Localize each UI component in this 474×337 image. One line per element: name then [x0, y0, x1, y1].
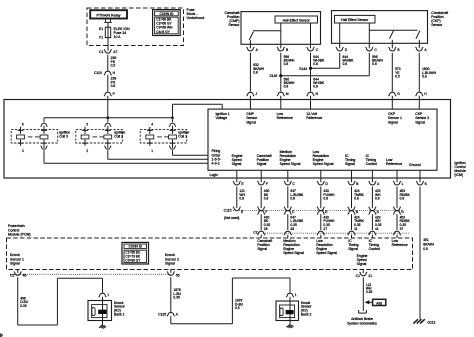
- svg-text:6: 6: [22, 123, 24, 127]
- svg-text:Control: Control: [454, 165, 466, 169]
- svg-text:Crankshaft: Crankshaft: [431, 11, 448, 15]
- svg-text:CKP: CKP: [415, 112, 423, 116]
- wire 239 PK 0.5: [108, 55, 117, 71]
- svg-text:Block -: Block -: [187, 12, 199, 16]
- svg-text:A7: A7: [113, 50, 117, 54]
- svg-text:12-Volt: 12-Volt: [306, 112, 317, 116]
- svg-text:Control: Control: [369, 247, 381, 251]
- knock sensor KS bank 2: [276, 301, 299, 321]
- svg-text:0.8: 0.8: [372, 62, 377, 66]
- relay K1 PTRAIN Relay box: [90, 10, 127, 18]
- PCM C2 terminal (B column): [348, 231, 356, 238]
- svg-text:G: G: [397, 92, 400, 96]
- svg-text:Signal: Signal: [415, 120, 425, 124]
- splice S145: [269, 74, 369, 78]
- wire 647-L-BU/BK from ICM C: [288, 187, 304, 209]
- svg-text:37: 37: [400, 227, 404, 231]
- svg-text:1-6-5-: 1-6-5-: [212, 157, 222, 161]
- ICM bottom terminal D: [317, 170, 328, 186]
- coil1 control line: [173, 150, 209, 155]
- svg-text:46: 46: [23, 274, 27, 278]
- svg-text:27: 27: [323, 227, 327, 231]
- wire 496 D-BU 0.35 (KS1): [18, 277, 29, 325]
- svg-text:Ignition: Ignition: [454, 161, 465, 165]
- svg-text:IC: IC: [345, 154, 349, 158]
- svg-text:Low: Low: [313, 150, 320, 154]
- svg-text:5: 5: [86, 123, 88, 127]
- inline connector C115 row (dotted): [233, 209, 403, 211]
- wire coil1 top to logic: [173, 104, 223, 122]
- svg-text:E1: E1: [99, 27, 103, 31]
- svg-text:Antilock Brake: Antilock Brake: [351, 317, 373, 321]
- wire 451 BK/WH from ICM K to G112: [420, 187, 435, 320]
- svg-text:4-3-2: 4-3-2: [212, 161, 220, 165]
- svg-text:Ignition: Ignition: [114, 131, 125, 135]
- svg-text:Sensor 2: Sensor 2: [415, 116, 429, 120]
- label CKP Sensor 2 Signal: [415, 112, 429, 124]
- svg-text:C110: C110: [94, 71, 102, 75]
- connector C110 pin H: [94, 71, 116, 75]
- svg-text:Sensor: Sensor: [301, 305, 313, 309]
- svg-text:Bank 1: Bank 1: [114, 313, 125, 317]
- svg-text:Signal: Signal: [345, 162, 355, 166]
- svg-text:Resolution: Resolution: [280, 154, 297, 158]
- svg-text:21: 21: [368, 274, 372, 278]
- CKP switch bus: [369, 29, 417, 31]
- label Crankshaft Position (CKP) Sensor: [431, 11, 448, 27]
- connector C115 pin C: [284, 207, 295, 215]
- connector C115 pin A: [369, 207, 380, 215]
- PCM C2 terminal (A column): [369, 231, 377, 238]
- svg-text:Low: Low: [392, 239, 399, 243]
- ground (KS2): [287, 324, 294, 328]
- wire fuse to C1: [107, 38, 109, 51]
- label Knock Sensor (KS) Bank 1: [114, 301, 126, 317]
- label Low Reference (PCM): [392, 239, 408, 247]
- svg-text:Control: Control: [8, 228, 20, 232]
- PCM C2 terminal (L column): [393, 231, 401, 238]
- PCM C2 terminal pin 46: [10, 270, 26, 278]
- relay contact prongs: [104, 19, 112, 22]
- svg-text:Knock: Knock: [10, 253, 20, 257]
- svg-text:Control: Control: [366, 162, 378, 166]
- wire KS1 to ground: [102, 321, 104, 325]
- svg-text:S145: S145: [269, 74, 277, 78]
- svg-text:56: 56: [176, 274, 180, 278]
- label C115 / Not used: [224, 209, 240, 220]
- svg-text:G: G: [401, 210, 404, 214]
- label Camshaft Position Signal (ICM): [257, 154, 272, 166]
- svg-text:0.8: 0.8: [375, 196, 380, 200]
- wire KS2 to ground: [289, 321, 291, 325]
- svg-text:Camshaft: Camshaft: [257, 154, 272, 158]
- svg-text:Low: Low: [316, 239, 323, 243]
- svg-text:CONN ID: CONN ID: [128, 245, 142, 249]
- svg-text:Timing: Timing: [348, 243, 358, 247]
- svg-text:IC: IC: [366, 154, 370, 158]
- svg-text:0.8: 0.8: [343, 62, 348, 66]
- svg-text:CONN ID: CONN ID: [159, 12, 174, 16]
- svg-text:Engine: Engine: [357, 254, 368, 258]
- svg-text:G112: G112: [427, 320, 435, 324]
- svg-text:1: 1: [295, 293, 297, 297]
- PCM C2 dotted line (bottom): [10, 273, 171, 275]
- wire 424-TN/BK from ICM B: [352, 187, 365, 209]
- svg-text:Signal: Signal: [232, 162, 242, 166]
- svg-text:Timing: Timing: [345, 158, 355, 162]
- CMP terminal B: [277, 47, 289, 52]
- connector ID table (PCM): [122, 242, 149, 264]
- svg-text:Low: Low: [386, 158, 393, 162]
- svg-text:0.35: 0.35: [173, 296, 180, 300]
- svg-text:Camshaft: Camshaft: [257, 239, 272, 243]
- label Knock Sensor 2 Signal: [165, 253, 179, 265]
- PCM C1 terminal pin 21: [356, 270, 373, 279]
- ground G112: [413, 319, 435, 324]
- svg-text:Logic: Logic: [210, 173, 219, 177]
- splice S144: [299, 67, 340, 71]
- svg-text:Fuse: Fuse: [187, 8, 195, 12]
- ignition voltage bus: [44, 116, 174, 119]
- label Ignition 1 Voltage: [216, 112, 230, 120]
- wire 430-BK from ICM F: [261, 187, 269, 209]
- label Logic: [210, 173, 219, 177]
- svg-text:0.8: 0.8: [290, 196, 295, 200]
- svg-text:11: 11: [354, 227, 358, 231]
- ground (KS1): [99, 325, 106, 329]
- label CMP Sensor Signal: [246, 112, 258, 124]
- svg-text:Signal: Signal: [246, 120, 256, 124]
- svg-text:28: 28: [290, 227, 294, 231]
- off-page bracket (ABS): [359, 310, 367, 313]
- svg-text:Sensor: Sensor: [246, 116, 258, 120]
- svg-text:Engine: Engine: [232, 154, 243, 158]
- label E1: [99, 27, 103, 31]
- svg-text:C2=73 BK: C2=73 BK: [125, 255, 140, 259]
- svg-text:ELEK IGN: ELEK IGN: [114, 27, 131, 31]
- wire coil3 top: [43, 118, 45, 122]
- svg-text:CMP: CMP: [246, 112, 254, 116]
- ICM bottom terminal C: [284, 170, 295, 186]
- off-page arrow A93: [365, 299, 386, 305]
- label Powertrain Control Module (PCM): [8, 224, 31, 236]
- label CKP Sensor 1 Signal: [388, 112, 402, 124]
- svg-text:Sensor: Sensor: [431, 23, 443, 27]
- svg-text:0.8: 0.8: [423, 247, 428, 251]
- wire 453-RD/BK from ICM L: [397, 187, 410, 209]
- wire 596 BK/WH lower (to M): [281, 76, 295, 92]
- wire 423-WH below C115 (A): [372, 214, 381, 231]
- svg-text:Resolution: Resolution: [283, 243, 300, 247]
- svg-text:Resolution: Resolution: [316, 243, 333, 247]
- svg-text:0.8: 0.8: [313, 85, 318, 89]
- wire KS2 route: [171, 278, 290, 324]
- svg-text:Signal: Signal: [257, 247, 267, 251]
- svg-text:Signal: Signal: [357, 262, 367, 266]
- wire 423-WH from ICM A: [372, 187, 381, 209]
- CKP terminal C: [366, 47, 378, 52]
- CKP switch blade 2: [416, 31, 420, 49]
- svg-text:Voltage: Voltage: [216, 116, 228, 120]
- wire 121 WH 0.35 (engine speed out): [363, 277, 372, 311]
- svg-text:Hall Effect Sensor: Hall Effect Sensor: [283, 18, 311, 22]
- svg-text:C1=68 BK: C1=68 BK: [156, 18, 172, 22]
- svg-text:0.35: 0.35: [20, 304, 27, 308]
- svg-text:0.35: 0.35: [366, 290, 373, 294]
- wire P into ICM: [107, 96, 109, 118]
- svg-text:0.8: 0.8: [253, 70, 258, 74]
- svg-text:Knock: Knock: [114, 301, 124, 305]
- svg-text:0.35: 0.35: [375, 223, 382, 227]
- svg-text:Order: Order: [212, 153, 222, 157]
- svg-text:C2: C2: [10, 274, 14, 278]
- wire 1876 L-BU 0.35 (KS2): [171, 277, 182, 312]
- svg-text:Coil 2: Coil 2: [114, 135, 123, 139]
- label Antilock Brake System Schematics: [347, 317, 377, 325]
- svg-text:0.8: 0.8: [400, 196, 405, 200]
- label IC Timing Signal (PCM): [348, 239, 358, 251]
- ignition coil 1: [140, 123, 189, 153]
- svg-text:0.8: 0.8: [422, 74, 427, 78]
- svg-text:Medium: Medium: [283, 239, 296, 243]
- svg-text:J: J: [255, 92, 257, 96]
- svg-text:System Schematics: System Schematics: [347, 321, 377, 325]
- svg-text:0.35: 0.35: [323, 223, 330, 227]
- svg-text:Ignition: Ignition: [178, 131, 189, 135]
- label Low Resolution Engine Speed Signal (PCM): [316, 239, 337, 255]
- svg-text:PTRAIN Relay: PTRAIN Relay: [97, 13, 121, 17]
- svg-text:Low: Low: [277, 112, 284, 116]
- wire 453-RD/BK below C115 (L): [397, 214, 410, 231]
- svg-text:F1: F1: [99, 36, 103, 40]
- label Camshaft Position (CMP) Sensor: [225, 11, 241, 27]
- svg-text:Bank 2: Bank 2: [301, 313, 312, 317]
- ICM logic box: [208, 109, 437, 170]
- svg-text:C2: C2: [253, 231, 257, 235]
- svg-text:Sensor: Sensor: [114, 305, 126, 309]
- svg-text:0.8: 0.8: [284, 62, 289, 66]
- svg-text:Reference: Reference: [277, 116, 293, 120]
- wire 596 BK/WH upper (CMP B): [281, 53, 295, 76]
- camshaft position sensor (CMP) box: [241, 12, 321, 45]
- ICM terminal N: [307, 92, 319, 109]
- svg-text:Signal: Signal: [388, 120, 398, 124]
- connector KS2 pin 1: [286, 293, 297, 301]
- label Engine Speed Signal (PCM): [357, 254, 368, 266]
- svg-text:0.5: 0.5: [111, 64, 116, 68]
- ignition coil 3: [11, 123, 70, 153]
- svg-text:4: 4: [151, 123, 153, 127]
- svg-text:IC: IC: [369, 239, 373, 243]
- PCM C2 terminal (D column): [317, 231, 325, 238]
- svg-text:Speed Signal: Speed Signal: [283, 251, 304, 255]
- connector C115 pin F: [257, 207, 267, 215]
- powertrain control module (PCM) dashed box: [7, 238, 413, 270]
- svg-text:BK/WH: BK/WH: [423, 243, 434, 247]
- wire 430-BK below C115 (F): [261, 214, 270, 231]
- svg-text:0.35: 0.35: [400, 223, 407, 227]
- svg-text:C1=56 BU: C1=56 BU: [125, 251, 140, 255]
- connector C115 pin G: [393, 207, 404, 215]
- svg-text:2: 2: [86, 149, 88, 153]
- svg-text:Position: Position: [227, 15, 240, 19]
- label Ground (ICM): [409, 163, 421, 167]
- svg-text:IC: IC: [348, 239, 352, 243]
- wire coil2 top (from P): [107, 118, 109, 122]
- CKP switch blade 1: [390, 31, 394, 49]
- svg-text:Knock: Knock: [165, 253, 175, 257]
- svg-text:0.8: 0.8: [323, 196, 328, 200]
- svg-text:0.8: 0.8: [111, 84, 116, 88]
- svg-text:1: 1: [107, 293, 109, 297]
- svg-text:Signal: Signal: [165, 261, 175, 265]
- svg-text:Module: Module: [454, 169, 466, 173]
- wire 632 BK/WH (CMP A to J): [250, 53, 264, 92]
- label Medium Resolution Engine Speed Signal (PCM): [283, 239, 304, 255]
- ICM terminal M: [277, 92, 289, 109]
- connector C125 pin A: [158, 312, 179, 316]
- svg-text:0.8: 0.8: [264, 196, 269, 200]
- crankshaft position sensor (CKP) box: [332, 11, 428, 44]
- CKP terminal D: [336, 47, 348, 52]
- label Low Resolution Engine Speed Signal (ICM): [313, 150, 334, 166]
- svg-text:Signal: Signal: [348, 247, 358, 251]
- svg-text:Position: Position: [257, 243, 270, 247]
- wire 1800 L-BU/WH (CKP A to H): [419, 53, 436, 92]
- hall effect sensor (CKP) inner box: [335, 15, 376, 23]
- label Fuse Block - Underhood: [187, 8, 205, 20]
- label Knock Sensor 1 Signal: [10, 253, 24, 265]
- svg-text:0.8: 0.8: [354, 196, 359, 200]
- CKP hall output wire D: [339, 23, 341, 48]
- wire 424-TN/BK below C115 (B): [352, 214, 365, 231]
- fuse value label: [114, 27, 131, 39]
- svg-text:Reference: Reference: [306, 116, 322, 120]
- svg-text:10 A: 10 A: [114, 35, 122, 39]
- ignition coil 2: [76, 123, 126, 153]
- label C2 (PCM top): [253, 231, 257, 235]
- terminal P of ICM: [104, 92, 116, 96]
- fuse block - underhood (dashed enclosure): [87, 8, 184, 46]
- ICM terminal H: [416, 92, 428, 109]
- svg-text:Reference: Reference: [386, 162, 402, 166]
- svg-text:Speed Signal: Speed Signal: [313, 162, 334, 166]
- label Camshaft Position Signal (PCM): [257, 239, 272, 251]
- PCM C2 terminal (C column): [284, 231, 292, 238]
- ICM terminal J: [247, 92, 258, 109]
- CKP terminal B: [389, 47, 401, 52]
- svg-text:Firing: Firing: [212, 149, 221, 153]
- coil2 control line: [108, 150, 208, 159]
- connector C115 pin E (not used): [233, 207, 244, 215]
- wire relay to fuse: [107, 22, 109, 27]
- hall effect sensor (CMP) inner box: [275, 16, 318, 23]
- svg-text:C115: C115: [224, 209, 232, 213]
- CMP terminal A: [247, 47, 259, 52]
- svg-text:C1: C1: [356, 274, 360, 278]
- wire 647-L-BU/BK below C115 (C): [288, 214, 304, 231]
- svg-text:Reference: Reference: [392, 243, 408, 247]
- ICM bottom terminal E: [233, 170, 244, 186]
- svg-text:Medium: Medium: [280, 150, 293, 154]
- wire 644 WH/BK (CKP D): [340, 53, 354, 69]
- svg-text:Position: Position: [257, 158, 270, 162]
- svg-text:Engine: Engine: [283, 247, 294, 251]
- svg-text:Powertrain: Powertrain: [8, 224, 25, 228]
- page corner artifact: [0, 333, 3, 337]
- svg-text:Engine: Engine: [313, 158, 324, 162]
- wire KS1 route: [18, 278, 103, 325]
- coil3 control line: [44, 150, 208, 163]
- wire 596 BK/WH (CKP C): [369, 53, 383, 76]
- connector C115 pin D: [317, 207, 328, 215]
- CKP terminal A: [416, 47, 428, 52]
- label Medium Resolution Engine Speed Signal (ICM): [280, 150, 301, 166]
- svg-text:0.35: 0.35: [264, 223, 271, 227]
- svg-text:3: 3: [22, 149, 24, 153]
- svg-text:Speed: Speed: [357, 258, 367, 262]
- svg-text:L: L: [402, 182, 404, 186]
- ICM bottom terminal F: [257, 170, 267, 186]
- label IC Timing Control (ICM): [366, 154, 378, 166]
- svg-text:Fuse 24: Fuse 24: [114, 31, 127, 35]
- wire 644 WH/BK upper (CMP C): [311, 53, 325, 69]
- svg-text:26: 26: [264, 227, 268, 231]
- svg-text:41: 41: [375, 227, 379, 231]
- svg-text:0.8: 0.8: [313, 62, 318, 66]
- svg-text:Speed: Speed: [232, 158, 242, 162]
- svg-text:1: 1: [151, 149, 153, 153]
- svg-text:Camshaft: Camshaft: [225, 11, 240, 15]
- svg-text:A93: A93: [376, 302, 382, 306]
- svg-text:Hall Effect Sensor: Hall Effect Sensor: [341, 18, 369, 22]
- label 12-Volt Reference: [306, 112, 322, 120]
- ICM bottom terminal L: [393, 170, 403, 186]
- svg-text:C125: C125: [158, 312, 166, 316]
- ignition control module (ICM) outer box: [4, 100, 451, 179]
- svg-text:Sensor 1: Sensor 1: [10, 257, 24, 261]
- wire 430-PU/WH below C115 (D): [321, 214, 335, 231]
- connector KS1 pin 1: [99, 293, 110, 301]
- svg-text:Underhood: Underhood: [187, 16, 205, 20]
- svg-text:Engine: Engine: [280, 158, 291, 162]
- label IC Timing Control (PCM): [369, 239, 381, 251]
- svg-text:Timing: Timing: [366, 158, 376, 162]
- svg-text:M: M: [286, 92, 289, 96]
- wire 121-WH from ICM E: [237, 187, 246, 209]
- svg-text:C3=80 GY: C3=80 GY: [125, 259, 141, 263]
- svg-text:Sensor 2: Sensor 2: [165, 257, 179, 261]
- PCM C2 dotted line (top): [263, 232, 410, 234]
- svg-text:Coil 3: Coil 3: [59, 135, 68, 139]
- svg-text:C4=8 GY: C4=8 GY: [156, 30, 170, 34]
- wire 573 YE (CKP B to G): [392, 53, 400, 92]
- svg-text:F: F: [266, 182, 268, 186]
- svg-text:0.8: 0.8: [284, 85, 289, 89]
- svg-text:(ICM): (ICM): [454, 173, 463, 177]
- label Ignition Control Module (ICM): [454, 161, 466, 177]
- svg-text:0.35: 0.35: [354, 223, 361, 227]
- label Low Reference (ICM bottom): [386, 158, 402, 166]
- svg-text:Ignition: Ignition: [59, 131, 70, 135]
- CKP hall output wire C: [368, 23, 370, 48]
- svg-text:Ground: Ground: [409, 163, 421, 167]
- svg-text:Sensor: Sensor: [228, 23, 240, 27]
- label Low Reference (top): [277, 112, 293, 120]
- fuse F24 ELEK IGN 10A: [105, 27, 110, 37]
- svg-text:Ignition 1: Ignition 1: [216, 112, 230, 116]
- CMP hall output wire C: [310, 23, 312, 48]
